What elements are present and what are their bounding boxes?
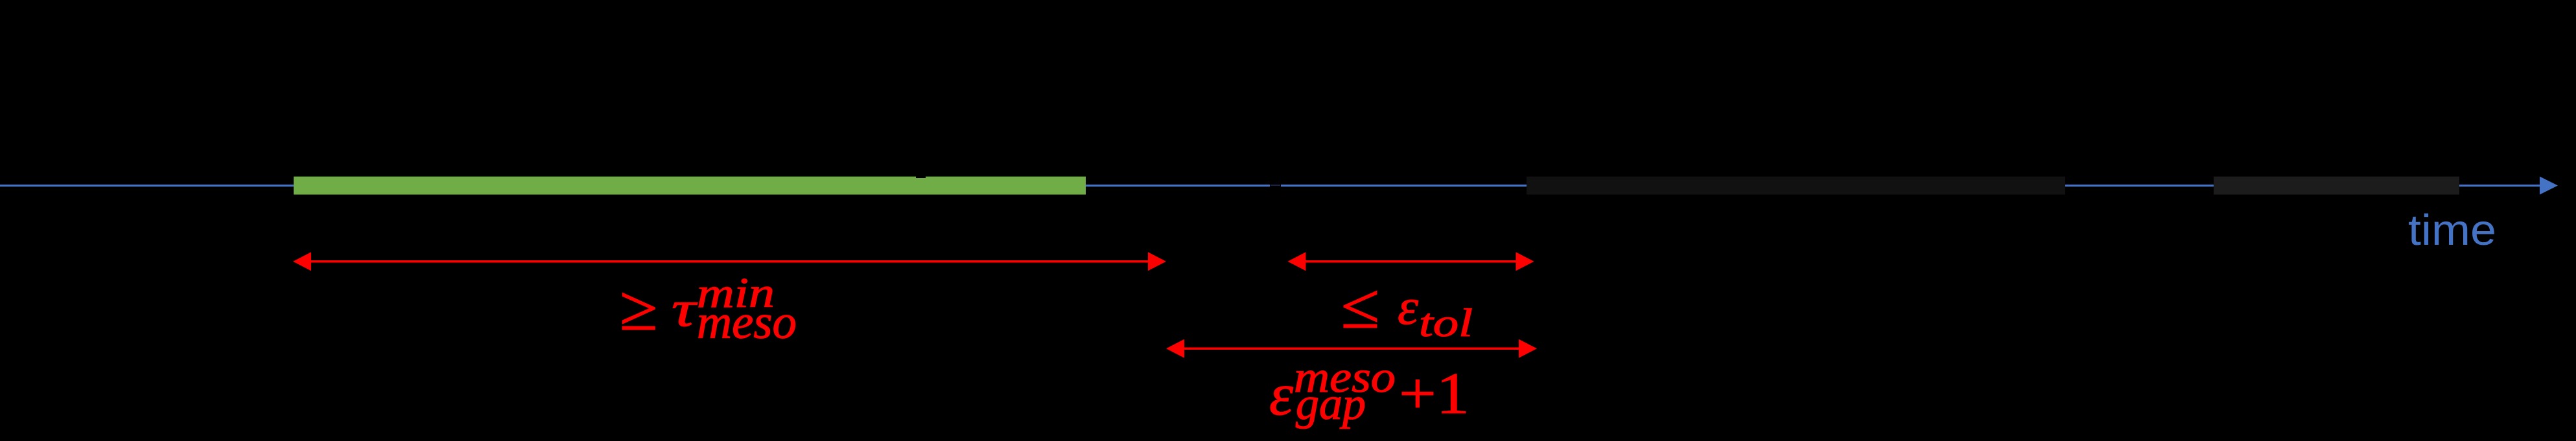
svg-text:time: time: [2408, 206, 2496, 254]
svg-text:≤: ≤: [1341, 271, 1379, 342]
svg-text:τ: τ: [672, 280, 698, 337]
svg-text:gap: gap: [1296, 379, 1366, 429]
svg-text:ε: ε: [1398, 278, 1418, 335]
svg-text:≥: ≥: [619, 273, 657, 344]
svg-text:meso: meso: [697, 296, 797, 349]
svg-text:+1: +1: [1399, 361, 1469, 426]
svg-text:ε: ε: [1269, 361, 1294, 427]
svg-text:tol: tol: [1419, 302, 1473, 345]
